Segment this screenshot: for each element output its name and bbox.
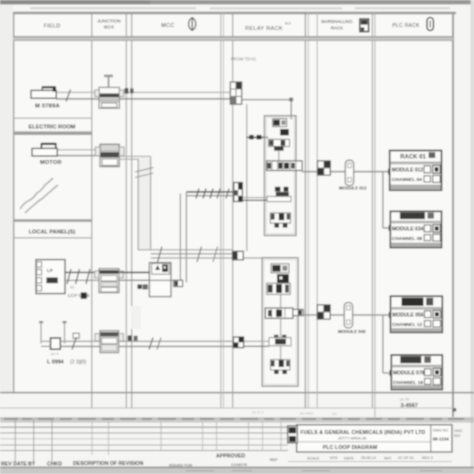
wire terminal nub rack4: [389, 370, 393, 376]
JB stack 1: [95, 75, 124, 109]
wire from B1 to panel A top: [242, 99, 292, 101]
column divider MCC|RELAY double: [220, 13, 222, 408]
terminal block B4 bottom cable: [233, 337, 243, 348]
svg-text:08-1234: 08-1234: [433, 437, 450, 442]
svg-text:LP: LP: [47, 268, 53, 273]
svg-text:JUNCTION: JUNCTION: [97, 18, 121, 23]
column divider MARSH|PLC double: [371, 13, 373, 408]
svg-text:as noted: as noted: [300, 412, 313, 416]
svg-text:SCALE: SCALE: [307, 456, 320, 460]
relay A contacts2 row: [270, 213, 290, 228]
svg-text:PLC RACK: PLC RACK: [392, 23, 420, 29]
bottom cable wires: [41, 340, 51, 342]
bottom page edge: [0, 468, 474, 474]
svg-text:MODULE 056: MODULE 056: [392, 313, 424, 319]
relay B output row: [265, 308, 293, 318]
right cell: [430, 425, 432, 452]
header bottom double line: [13, 36, 453, 41]
svg-text:MOTOR: MOTOR: [40, 160, 62, 166]
ELECTRIC ROOM band line: [14, 117, 92, 119]
svg-text:RACK 01: RACK 01: [400, 155, 426, 161]
faint smudge: [131, 306, 141, 329]
relay B vert link3: [280, 346, 282, 360]
bundle hatches: [158, 247, 163, 263]
local panel box LCP: [36, 260, 65, 294]
relay panel A outline: [264, 116, 296, 236]
header icon PLC pill: [427, 18, 433, 31]
bottom field device: [51, 338, 61, 349]
wire terminal nub rack3: [389, 312, 393, 318]
relay A vert link: [278, 151, 280, 161]
wire row1 to PLC: [302, 171, 390, 173]
PLC rack box 4: [391, 355, 442, 390]
wire row2 to PLC: [303, 314, 390, 316]
svg-text:MODULE 034: MODULE 034: [392, 227, 424, 233]
svg-text:CHANNEL 08: CHANNEL 08: [392, 236, 422, 242]
JB stack 2: [95, 144, 124, 166]
column divider JB|MCC double: [125, 13, 127, 408]
svg-text:MCC: MCC: [161, 23, 174, 29]
dark control cable to relay rack: [186, 191, 234, 193]
JB stack 3: [95, 269, 124, 293]
cable into panel B mid: [244, 340, 270, 342]
PLC rack box 1: [390, 151, 442, 191]
svg-text:PLC LOOP DIAGRAM: PLC LOOP DIAGRAM: [323, 445, 378, 451]
svg-text:01 OF 01: 01 OF 01: [398, 456, 414, 460]
bottom row small texts left: [1, 454, 278, 468]
terminal block B2 on control cable: [234, 183, 243, 202]
drawing frame: left border: [13, 13, 15, 393]
top scan edge: [0, 0, 474, 4]
relay B contact row: [267, 283, 291, 294]
actuator device D1: [31, 87, 56, 98]
svg-text:MODULE 012: MODULE 012: [392, 168, 424, 174]
handwritten scribble: [20, 178, 58, 213]
relay panel B outline: [262, 258, 298, 387]
PLC rack box 3: [391, 296, 443, 332]
LCP cable hatches: [67, 269, 90, 284]
svg-text:FROM TD-01: FROM TD-01: [231, 57, 257, 62]
dense top band (row of tiny text): [0, 417, 474, 420]
svg-text:ao 4: ao 4: [51, 352, 58, 356]
svg-text:CHANNEL 04: CHANNEL 04: [392, 177, 422, 183]
wire pair row1 field: [56, 91, 230, 93]
svg-text:DATE: DATE: [344, 456, 354, 460]
header icon MARSH connector: [360, 19, 369, 32]
svg-text:ps 34: ps 34: [400, 397, 409, 401]
right edge outside border texts: [454, 429, 463, 438]
relay B output ext connector: [293, 309, 303, 315]
svg-text:L 0994: L 0994: [47, 360, 64, 366]
dark marks right of stack4: [128, 335, 132, 340]
svg-text:ELECTRIC ROOM: ELECTRIC ROOM: [29, 124, 76, 130]
svg-text:nb 21-4: nb 21-4: [252, 410, 264, 414]
terminal block B6: [317, 305, 330, 319]
isolator pill P1: [345, 160, 353, 185]
svg-text:REF: REF: [270, 458, 278, 462]
revision table vertical lines: [15, 419, 52, 462]
bundle 3 lines to relay rack: [138, 249, 233, 251]
relay B dark box: [277, 274, 289, 283]
drawing frame: bottom inner line: [0, 392, 474, 394]
drawing frame: bottom margin line: [0, 407, 453, 409]
logo cell: [288, 426, 298, 443]
svg-text:JETTY AREA 08: JETTY AREA 08: [338, 435, 366, 440]
actuator device D2: [32, 144, 57, 156]
relay A output row: [267, 161, 303, 171]
right page edge: [471, 0, 474, 474]
dark marks right of stack1: [125, 88, 129, 94]
svg-text:MODULE 012: MODULE 012: [339, 186, 367, 191]
small comp on bottom cable: [73, 333, 79, 338]
cable turn-down from row2: [119, 155, 151, 157]
terminal block B1 top: [230, 82, 241, 104]
svg-text:CHKD: CHKD: [47, 461, 62, 467]
terminal block B5: [318, 161, 331, 175]
svg-text:BY: BY: [28, 462, 36, 468]
relay A mid contact block: [267, 187, 291, 202]
svg-text:REV 2: REV 2: [422, 456, 433, 460]
svg-text:LOCAL PANEL(S): LOCAL PANEL(S): [29, 230, 76, 236]
ELECTRIC ROOM band thick line: [14, 131, 92, 135]
svg-text:rev: rev: [332, 412, 337, 416]
vertical pair down from control cable: [179, 194, 181, 283]
hatch marks wire1: [66, 90, 71, 102]
svg-text:SHT: SHT: [384, 456, 392, 460]
bottom row small texts right: [307, 456, 433, 460]
relay B label box: [271, 264, 289, 273]
column divider RELAY|MARSH double: [304, 13, 306, 408]
wire pair row2 field: [57, 149, 100, 151]
svg-text:4C: 4C: [70, 286, 75, 290]
title box: [288, 425, 452, 452]
wire terminal nub rack1: [388, 169, 392, 175]
svg-text:BOX: BOX: [104, 25, 115, 30]
LCP cable wires: [65, 271, 150, 273]
svg-text:NTS: NTS: [330, 456, 338, 460]
svg-text:ISSUED FOR: ISSUED FOR: [169, 463, 192, 467]
svg-text:05.06.14: 05.06.14: [361, 456, 376, 460]
drop from B1 bottom: [246, 104, 248, 251]
JB stack 4: [95, 331, 123, 353]
wire terminal nub rack2: [389, 225, 393, 231]
svg-text:3-4567: 3-4567: [401, 403, 418, 409]
relay A dark box: [280, 129, 289, 135]
terminal block B3 bundle: [233, 251, 244, 260]
svg-text:M 0789A: M 0789A: [35, 104, 61, 110]
svg-text:REF: REF: [454, 434, 461, 438]
svg-text:MODULE 078: MODULE 078: [393, 370, 425, 376]
header icon MCC ground: [189, 17, 196, 31]
relay A label box: [273, 119, 287, 127]
svg-text:(0): (0): [80, 359, 86, 365]
revision table horizontal lines: [0, 421, 474, 423]
relay A contact row: [269, 139, 290, 146]
MCC starter box: [149, 263, 171, 297]
faint marks above top frame: [30, 7, 450, 9]
svg-text:REV DATE: REV DATE: [1, 461, 27, 467]
svg-text:N-3: N-3: [285, 22, 291, 26]
svg-text:CONSTR: CONSTR: [231, 463, 247, 467]
hatch on bottom cable in MCC: [149, 338, 153, 350]
svg-text:MARSHALLING: MARSHALLING: [321, 19, 353, 24]
branch drop to rack2: [382, 172, 384, 228]
svg-text:CHANNEL 16: CHANNEL 16: [393, 380, 423, 386]
elbow nub: [289, 98, 293, 102]
svg-text:CHANNEL 12: CHANNEL 12: [392, 322, 422, 328]
relay B vert link2: [280, 318, 282, 337]
svg-text:DWG: DWG: [454, 429, 463, 433]
svg-text:DWG NO: DWG NO: [433, 429, 448, 433]
branch drop to rack4: [382, 315, 384, 373]
drawing frame: right border: [452, 13, 454, 418]
drawing frame: top border: [13, 12, 456, 14]
connector right of starter: [174, 280, 183, 286]
isolator pill P2: [344, 303, 352, 328]
relay B contacts2 row: [271, 360, 291, 374]
svg-text:RELAY RACK: RELAY RACK: [245, 26, 283, 32]
control cable hatches: [196, 189, 199, 199]
LOCAL PANEL band line2: [14, 237, 92, 239]
bottom device antennas: [41, 322, 65, 343]
svg-text:MODULE 045: MODULE 045: [338, 329, 366, 334]
relay B mid contact block: [269, 335, 291, 346]
dark link into panel A: [247, 136, 268, 138]
svg-text:DESCRIPTION OF REVISION: DESCRIPTION OF REVISION: [73, 461, 144, 467]
relay B vert link1: [280, 294, 282, 308]
svg-text:APPROVED: APPROVED: [216, 454, 245, 460]
starter small bottom-left squares: [137, 284, 142, 289]
LOCAL PANEL band thick line: [14, 219, 92, 222]
column divider FIELD|JB: [91, 13, 93, 408]
local panel wire crossing MCC: [119, 271, 149, 273]
svg-text:FIELD: FIELD: [44, 23, 61, 29]
relay A small dark box: [274, 146, 284, 150]
PLC rack box 2: [390, 211, 441, 247]
svg-text:RACK: RACK: [331, 26, 343, 31]
cable into panel A mid: [242, 197, 267, 199]
